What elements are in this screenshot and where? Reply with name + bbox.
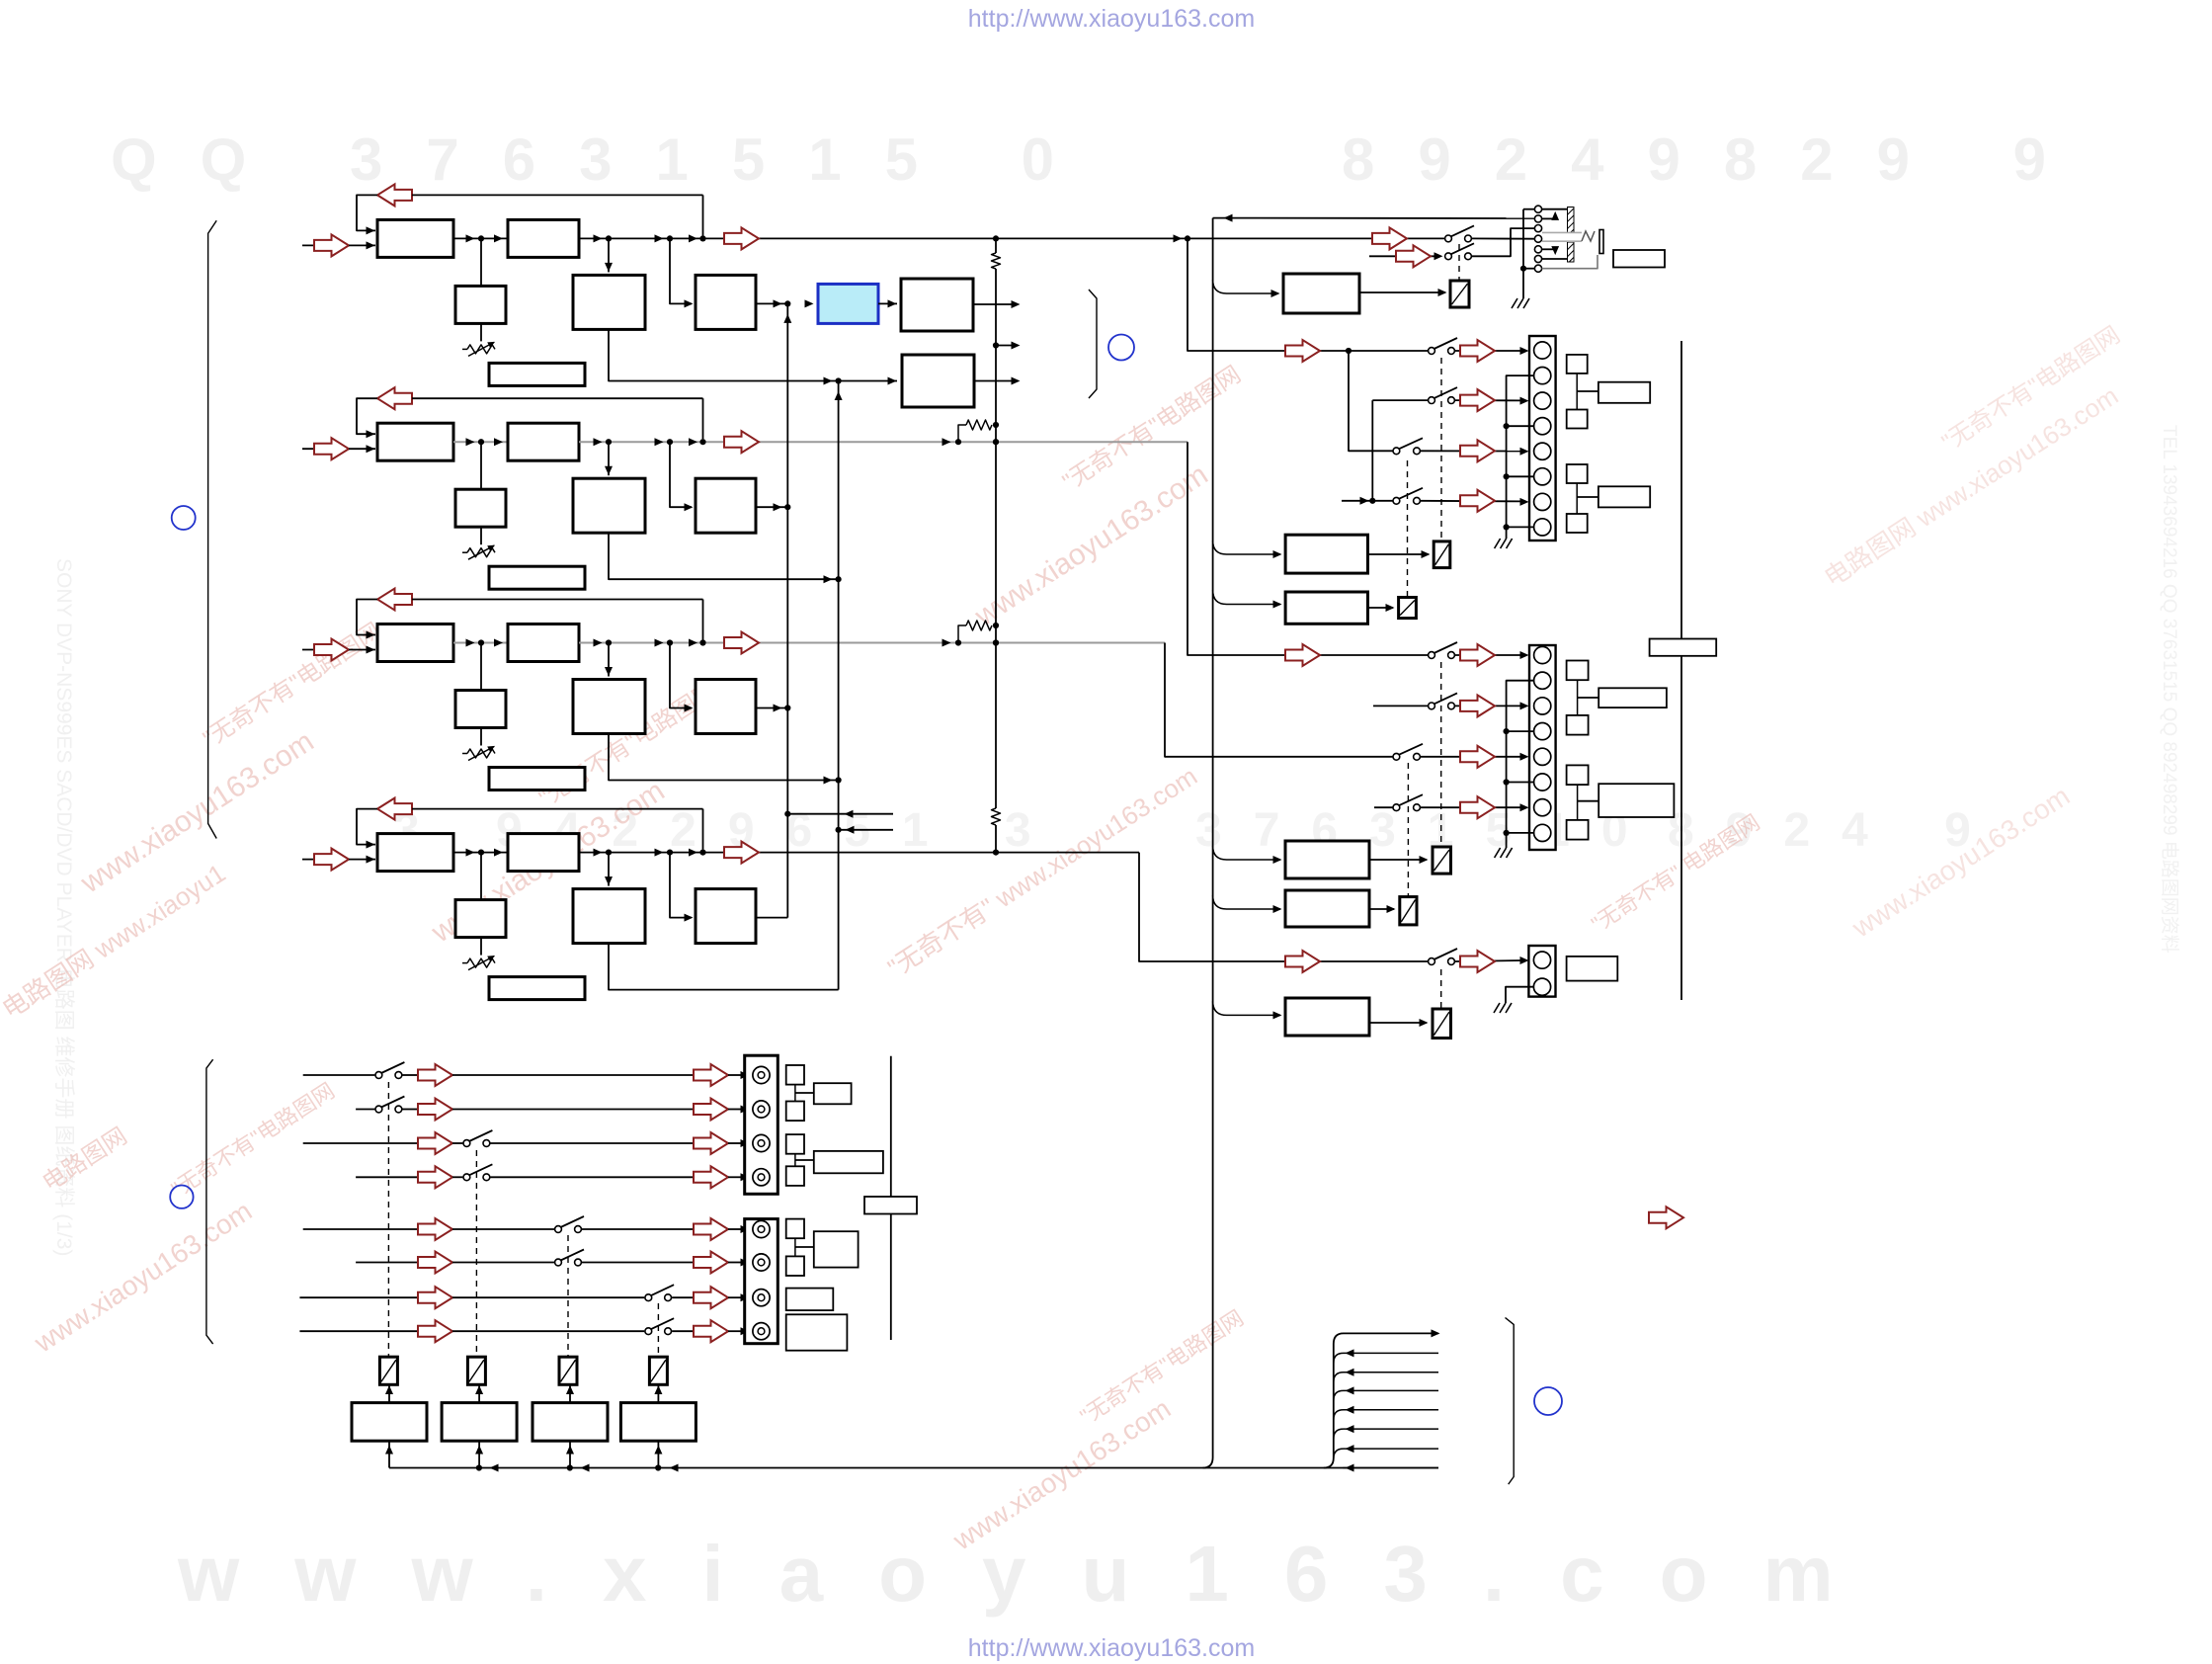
selector switch row 6	[555, 1259, 562, 1266]
variable resistor channel 1	[480, 323, 482, 341]
phone plug sleeve return (gray)	[1542, 255, 1598, 269]
RCA B square 1	[786, 1219, 804, 1239]
junction: channel 4 at mix rail	[993, 850, 999, 856]
wire: channel 4 right block output	[756, 917, 787, 919]
block: group2 driver A	[1285, 841, 1369, 878]
mech link: selector column 2 (dashed)	[475, 1150, 477, 1356]
block 1 channel 4	[377, 834, 453, 872]
selector switch row 3	[463, 1140, 470, 1147]
selector row 8 arrow 2	[694, 1320, 728, 1342]
input arrow channel 1	[314, 234, 349, 256]
wire: group1 driver B to relay	[1368, 607, 1394, 609]
bracket: left-section outputs	[1089, 290, 1097, 398]
mix rail (vertical)	[995, 238, 997, 253]
wire: driver 1 from control bus	[388, 1441, 390, 1467]
mech link: selector column 4 (dashed)	[657, 1303, 659, 1356]
RCA jack B4	[753, 1323, 770, 1340]
group1 row A wire/switch/arrows	[1455, 350, 1522, 352]
block: selector driver 1	[352, 1403, 427, 1442]
RCA B link 1-2	[794, 1238, 796, 1256]
connector: RCA group A body	[745, 1055, 778, 1194]
wire: block 5 output	[973, 303, 1018, 305]
wire: channel 2 output line	[579, 441, 1188, 443]
long vertical rail (right edge)	[1680, 341, 1682, 1000]
thin block channel 1	[489, 363, 585, 385]
wire: group2 driver A to relay	[1369, 859, 1427, 861]
RCA jack A3	[753, 1134, 770, 1151]
wire: channel 2 input stub	[302, 448, 343, 450]
selector row 2 arrow 1	[418, 1099, 452, 1121]
resistor tap channel 3	[955, 639, 961, 645]
feedback arrow channel 3	[377, 589, 412, 611]
output arrow channel 2	[724, 431, 759, 453]
RCA jack B2	[753, 1254, 770, 1271]
relay: selector column 3	[559, 1357, 577, 1384]
RCA B label box 2	[786, 1289, 834, 1311]
wire: rail branch to headphone amp	[1213, 280, 1278, 293]
output arrow channel 4	[724, 842, 759, 864]
box on right rail	[1650, 639, 1717, 656]
small block channel 4	[480, 853, 482, 900]
group1 pin 4	[1534, 418, 1551, 435]
wire: rail branch to group2 driver B	[1213, 895, 1280, 909]
RCA B label box 3	[786, 1314, 848, 1350]
block: selector driver 2	[442, 1403, 517, 1442]
selector switch row 8	[645, 1328, 652, 1335]
jack pin 6	[1534, 255, 1541, 262]
svg-text:http://www.xiaoyu163.com: http://www.xiaoyu163.com	[968, 1634, 1255, 1662]
wire: channel 3 drop to rec out row C	[1165, 643, 1393, 757]
jack pin 5	[1534, 246, 1541, 253]
thin block channel 3	[489, 768, 585, 790]
group1 label box A	[1598, 382, 1650, 403]
wire: channel 1 between blocks	[453, 237, 508, 239]
group2 row A arrows/switch	[1455, 654, 1522, 656]
jack internal contact (up triangle)	[1542, 217, 1555, 219]
headphone switch 2	[1445, 253, 1452, 260]
wire: channel 2 mid block lower output	[609, 533, 839, 579]
group1 pin 5	[1534, 443, 1551, 459]
small block channel 3	[480, 643, 482, 691]
block 1 channel 3	[377, 624, 453, 662]
svg-text:TEL 13943694216 QQ 37631515 QQ: TEL 13943694216 QQ 37631515 QQ 892498299…	[2159, 425, 2180, 954]
jack sleeve hatched bar lower	[1568, 242, 1575, 262]
mech link: selector column 3 (dashed)	[567, 1235, 569, 1356]
block 2 channel 4	[508, 834, 579, 872]
block: selector driver 4	[620, 1403, 696, 1442]
mech link: group1 rows A/C to relay A (dashed)	[1440, 358, 1442, 541]
selector switch row 1	[375, 1072, 382, 1079]
mid block channel 3	[608, 643, 610, 677]
variable resistor channel 2	[480, 527, 482, 544]
block: group3 driver	[1285, 998, 1369, 1036]
group1 ground chain	[1507, 375, 1534, 539]
phone plug tip bar	[1599, 230, 1603, 254]
wire: channel 1 input stub	[302, 244, 343, 246]
block 2 channel 1	[508, 219, 579, 257]
group1 pin 2	[1534, 368, 1551, 384]
selector row 6 arrow 1	[418, 1252, 452, 1274]
selector row 2 wire	[356, 1109, 374, 1111]
RCA A label box 1	[814, 1083, 852, 1104]
group1 row C switch/arrow	[1421, 450, 1522, 452]
isolated arrow (to other sheet)	[1649, 1206, 1683, 1228]
group3 pin 1	[1533, 952, 1550, 968]
wire: group1 row B to row D	[1371, 400, 1373, 501]
wire: channel 3 output line	[579, 642, 1165, 644]
resistor on mix rail (bottom)	[992, 808, 1001, 825]
bus branch line 2	[1334, 1373, 1438, 1382]
bus branch line 1	[1334, 1353, 1438, 1363]
RCA B label box 1	[814, 1231, 859, 1267]
wire: channel 2 drop to rec out row A	[1188, 442, 1428, 655]
group2 pin 8	[1534, 824, 1551, 841]
selector row 5 arrow 2	[694, 1218, 728, 1240]
feedback arrow channel 1	[377, 184, 412, 206]
right block channel 2	[670, 442, 692, 507]
arrow into headphone switch row 2	[1396, 245, 1431, 267]
relay: group2 B	[1400, 897, 1417, 925]
wire: channel 3 right block output	[756, 707, 787, 709]
group2 pin 5	[1534, 748, 1551, 765]
right block channel 3	[670, 643, 692, 708]
wire: driver 4 to relay	[657, 1385, 659, 1403]
block 1 channel 1	[377, 219, 453, 257]
jack pin 7	[1534, 265, 1541, 272]
wire: driver 2 from control bus	[478, 1441, 480, 1467]
group2 row B wire/switch/arrow	[1373, 705, 1428, 707]
selector row 3 wire	[303, 1142, 418, 1144]
feedback arrow channel 2	[377, 387, 412, 409]
group1 indicator square 2	[1567, 410, 1588, 429]
wire: channel 1 input to block	[349, 244, 375, 246]
selector row 1 wire	[303, 1074, 375, 1076]
wire: switch 2 to jack ring	[1471, 228, 1534, 256]
headphone jack connector body	[1522, 209, 1524, 298]
selector row 8 arrow 1	[418, 1320, 452, 1342]
bracket: control bus to other sheet	[1506, 1318, 1515, 1485]
resistor on mix rail (top)	[992, 253, 1001, 269]
bus: sum rail B (mid-block outputs)	[838, 381, 840, 990]
resistor tap channel 2	[955, 439, 961, 445]
output arrow channel 3	[724, 632, 759, 654]
input arrow channel 3	[314, 639, 349, 661]
right block channel 1	[670, 238, 692, 303]
selector row 6 arrow 2	[694, 1252, 728, 1274]
wire: supply rail from headphone line (long vertical)	[1212, 218, 1214, 1457]
jack pin 2	[1534, 215, 1541, 222]
relay: group1 A	[1434, 541, 1450, 568]
wire: channel 2 between blocks	[453, 441, 508, 443]
wire: channel 1 feedback loop	[357, 195, 377, 230]
selector row 7 arrow 2	[694, 1287, 728, 1308]
group1 row B wire/switch/arrow	[1372, 399, 1428, 401]
group2 pin 1	[1534, 646, 1551, 663]
small block channel 1	[480, 238, 482, 286]
wire: channel 4 between blocks	[453, 852, 508, 854]
block: group1 driver B	[1285, 592, 1367, 624]
RCA jack A4	[753, 1169, 770, 1186]
thin block channel 4	[489, 977, 585, 1000]
RCA A link 1-2	[794, 1085, 796, 1102]
selector row 4 arrow 1	[418, 1166, 452, 1188]
bus: sum rail A (right-block outputs)	[786, 303, 788, 917]
wire: channel 3 input to block	[349, 649, 375, 651]
selector row 6 wire	[356, 1262, 418, 1264]
thin block channel 2	[489, 566, 585, 589]
arrow into headphone switch row 1	[1372, 227, 1407, 249]
wire: channel 2 feedback loop	[357, 398, 377, 434]
wire: channel 1 mid block lower output	[609, 329, 897, 380]
block 2 channel 3	[508, 624, 579, 662]
selector row 5 arrow 1	[418, 1218, 452, 1240]
wire: channel 1 output line	[579, 237, 1444, 239]
block 1 channel 2	[377, 423, 453, 460]
mech link: group2 rows C/D to relay B (dashed)	[1407, 763, 1409, 896]
group2 row C switch/arrow	[1421, 756, 1522, 758]
block 5 (upper right of left section)	[901, 279, 973, 331]
group1 pin 1	[1534, 342, 1551, 359]
selector row 1 arrow 2	[694, 1064, 728, 1086]
selector switch row 2	[375, 1106, 382, 1113]
box: headphone jack label block	[1613, 250, 1665, 268]
junction: channel 1 at mix rail	[993, 235, 999, 241]
junction: rail at channel 2	[993, 439, 999, 445]
variable resistor channel 3	[480, 728, 482, 746]
selector row 7 wire	[299, 1296, 418, 1298]
connector: output group 1 body	[1529, 336, 1556, 541]
RCA B square 2	[786, 1256, 804, 1276]
group2 label box A	[1598, 688, 1667, 707]
right block channel 4	[670, 853, 692, 918]
group2 ground chain	[1507, 681, 1534, 848]
wire: block 6 output	[974, 380, 1018, 382]
group2 row D wire/switch/arrow	[1374, 806, 1393, 808]
group1 label link 3-4	[1576, 483, 1578, 514]
group2 pin 7	[1534, 799, 1551, 816]
mech link: group1 rows B/D to relay B (dashed)	[1407, 460, 1409, 597]
wire: channel 1 right block output	[756, 302, 787, 304]
group2 indicator square 3	[1567, 765, 1589, 785]
input arrow channel 2	[314, 438, 349, 459]
junction: channel 2 at mix rail	[993, 439, 999, 445]
group1 pin 8	[1534, 519, 1551, 536]
wire: channel 4 drop to aux out row	[1139, 853, 1428, 961]
output arrow channel 1	[724, 227, 759, 249]
wire: group2 driver B to relay	[1369, 908, 1394, 910]
selector row 7 arrow 1	[418, 1287, 452, 1308]
jack pin 1	[1534, 206, 1541, 212]
group3 row arrows/switch	[1455, 960, 1522, 961]
bus branch line 7	[1343, 1467, 1438, 1469]
group3 pin 2	[1533, 978, 1550, 995]
block: selector driver 3	[533, 1403, 608, 1442]
wire: driver 3 from control bus	[569, 1441, 571, 1467]
mid block channel 4	[608, 853, 610, 886]
RCA jack B3	[753, 1290, 770, 1306]
group3 ground	[1506, 987, 1533, 1003]
wire: rail branch to group2 driver A	[1213, 846, 1280, 860]
junction: channel 3 at mix rail	[993, 639, 999, 645]
wire: group1 driver A to relay	[1368, 553, 1430, 555]
mech link: headphone switch to relay (dashed)	[1458, 244, 1460, 280]
RCA section rail (vertical)	[890, 1056, 892, 1340]
wire: channel 3 mid block lower output	[609, 734, 839, 781]
selector row 4 arrow 2	[694, 1166, 728, 1188]
selector row 8 wire	[299, 1330, 418, 1332]
group2 pin 4	[1534, 723, 1551, 740]
summing block (cyan)	[805, 299, 814, 307]
wire: rail branch to group1 driver B	[1213, 590, 1280, 605]
selector row 1 arrow 1	[418, 1064, 452, 1086]
selector row 5 wire	[303, 1228, 418, 1230]
ground: headphone jack	[1512, 298, 1517, 308]
wire: headphone amp to relay	[1359, 291, 1445, 293]
RCA A label box 2	[814, 1151, 883, 1173]
mech link: group2 rows A/B to relay A (dashed)	[1440, 662, 1442, 846]
wire: rail branch to group1 driver A	[1213, 541, 1280, 554]
selector switch row 5	[555, 1226, 562, 1233]
label box on RCA rail	[864, 1197, 917, 1214]
wire: channel 3 input stub	[302, 649, 343, 651]
wire: channel 1 drop to output select row A	[1188, 238, 1428, 351]
connector: RCA group B body	[745, 1219, 778, 1344]
svg-text:http://www.xiaoyu163.com: http://www.xiaoyu163.com	[968, 5, 1255, 33]
phone plug shaft (gray)	[1542, 231, 1582, 233]
group2 label box B	[1598, 784, 1674, 817]
group2 pin 3	[1534, 698, 1551, 714]
variable resistor channel 4	[480, 938, 482, 956]
group2 label link 3-4	[1577, 785, 1579, 820]
jack pin6 lead to sleeve bar	[1542, 258, 1569, 260]
relay: headphone mute	[1450, 281, 1469, 307]
wire: channel 4 output line	[579, 852, 1139, 854]
block 6 (lower right of left section)	[902, 355, 974, 407]
svg-text:37631510: 37631510	[1195, 804, 1660, 857]
wire: channel 1 line to headphone switch	[1174, 234, 1183, 242]
mech link: selector column 1 (dashed)	[387, 1082, 389, 1356]
sheet-reference circle (control bus)	[1534, 1387, 1562, 1415]
group1 pin 7	[1534, 493, 1551, 510]
RCA A link 3-4	[794, 1154, 796, 1167]
selector row 4 wire	[356, 1176, 418, 1178]
relay: group2 A	[1433, 847, 1451, 874]
RCA A square 1	[786, 1065, 804, 1085]
group3 label box	[1567, 957, 1618, 981]
wire: headphone feed row 2	[1369, 255, 1438, 257]
connector: output group 3 body	[1528, 946, 1555, 997]
wire: driver 4 from control bus	[657, 1441, 659, 1467]
wire: channel 4 feedback loop	[357, 809, 377, 845]
mid block channel 2	[608, 442, 610, 475]
wire: driver 3 to relay	[569, 1385, 571, 1403]
group1 indicator square 4	[1567, 514, 1588, 533]
ground: group2	[1495, 848, 1501, 858]
wire: cyan block to block 5	[878, 302, 897, 304]
wire: channel 3 feedback loop	[357, 600, 377, 635]
mid block channel 1	[608, 238, 610, 272]
left section sheet-reference circle	[172, 506, 196, 530]
wire: channel 2 input to block	[349, 448, 375, 450]
wire: aux feed into sum rail B	[836, 827, 842, 833]
group1 indicator square 3	[1567, 464, 1588, 483]
connector: output group 2 body	[1529, 645, 1556, 850]
relay: selector column 2	[467, 1357, 485, 1384]
wire: channel 3 between blocks	[453, 642, 508, 644]
relay: selector column 1	[379, 1357, 397, 1384]
wire: driver 1 to relay	[388, 1385, 390, 1403]
wire: aux feed into sum rail A	[784, 811, 790, 817]
wire: rail branch to group3 driver	[1213, 1001, 1280, 1015]
RCA A square 4	[786, 1166, 804, 1186]
jack pin 3	[1534, 225, 1541, 232]
group2 indicator square 4	[1567, 820, 1589, 840]
svg-text:89249829 9: 89249829 9	[1342, 126, 2089, 193]
wire: channel 2 right block output	[756, 506, 787, 508]
wire: driver 2 to relay	[478, 1385, 480, 1403]
bus to arrow-stack riser	[1324, 1333, 1438, 1467]
group1 label box B	[1598, 486, 1650, 507]
group2 pin 6	[1534, 774, 1551, 790]
group1 label link 1-2	[1576, 374, 1578, 410]
input arrow channel 4	[314, 849, 349, 871]
wire: channel 4 input to block	[349, 859, 375, 861]
group1 row D wire/switch/arrow	[1342, 500, 1393, 502]
group1 indicator square 1	[1567, 355, 1588, 374]
group2 label link 1-2	[1577, 680, 1579, 715]
block: group1 driver A	[1285, 535, 1367, 573]
headphone switch 1	[1445, 235, 1452, 242]
bottom-left section bracket	[206, 1059, 213, 1344]
group1 pin 3	[1534, 392, 1551, 409]
RCA jack A2	[753, 1101, 770, 1118]
sheet-reference circle (left-section outputs)	[1108, 335, 1134, 361]
jack sleeve hatched bar upper	[1568, 208, 1575, 233]
block: headphone amp	[1283, 274, 1359, 313]
junction: rail at channel 3	[993, 639, 999, 645]
group1 pin 6	[1534, 468, 1551, 485]
block: group2 driver B	[1285, 890, 1369, 927]
group2 pin 2	[1534, 672, 1551, 689]
RCA A square 2	[786, 1102, 804, 1122]
control bus (bottom)	[389, 1467, 1438, 1469]
bus branch line 3	[1334, 1390, 1438, 1400]
RCA jack A1	[753, 1066, 770, 1083]
svg-text:www.xiaoyu163.com: www.xiaoyu163.com	[177, 1530, 1889, 1618]
wire: switch 1 to jack tip	[1471, 237, 1534, 239]
svg-text:QQ 37631515 0: QQ 37631515 0	[111, 126, 1098, 193]
wire: headphone return line	[1213, 217, 1534, 219]
bottom-left sheet-reference circle	[170, 1186, 193, 1208]
relay: group3	[1433, 1009, 1451, 1039]
bus branch line 6	[1334, 1449, 1438, 1458]
selector switch row 4	[463, 1174, 470, 1181]
RCA A square 3	[786, 1134, 804, 1154]
block 2 channel 2	[508, 423, 579, 460]
wire: channel 4 mid block lower output	[609, 944, 839, 990]
jack pin1 lead to sleeve bar	[1542, 208, 1569, 210]
bus branch line 5	[1334, 1429, 1438, 1439]
mech link: group3 switch to relay (dashed)	[1440, 969, 1442, 1008]
wire: group3 driver to relay	[1369, 1022, 1427, 1024]
selector row 3 arrow 1	[418, 1132, 452, 1154]
selector switch row 7	[645, 1294, 652, 1301]
ground: group1	[1495, 539, 1501, 548]
wire: group1 row A to row C	[1349, 351, 1393, 451]
selector row 2 arrow 2	[694, 1099, 728, 1121]
small block channel 2	[480, 442, 482, 489]
selector row 3 arrow 2	[694, 1132, 728, 1154]
